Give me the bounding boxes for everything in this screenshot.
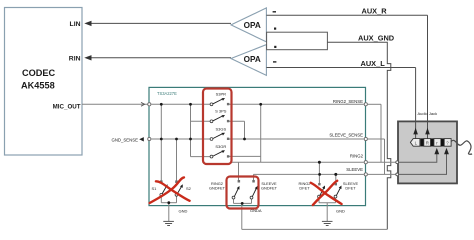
svg-text:RIN: RIN <box>69 55 81 62</box>
svg-text:R: R <box>426 140 429 145</box>
svg-text:AUX_GND: AUX_GND <box>358 33 395 42</box>
svg-text:S3PR: S3PR <box>216 92 227 97</box>
svg-text:Audio Jack: Audio Jack <box>418 111 438 116</box>
svg-text:GND: GND <box>336 208 345 213</box>
svg-text:DFET: DFET <box>299 186 310 191</box>
svg-text:AUX_L: AUX_L <box>361 59 386 68</box>
svg-text:GND: GND <box>179 209 188 214</box>
svg-text:TS3A227E: TS3A227E <box>157 91 177 96</box>
svg-text:GNDFET: GNDFET <box>209 186 226 191</box>
svg-text:OPA: OPA <box>244 55 261 64</box>
svg-text:SLEEVE: SLEEVE <box>346 167 363 172</box>
svg-text:GND_SENSE: GND_SENSE <box>111 137 138 142</box>
svg-text:OPA: OPA <box>244 21 261 30</box>
svg-text:SLEEVE_SENSE: SLEEVE_SENSE <box>329 132 363 137</box>
svg-text:S3GS: S3GS <box>215 126 226 131</box>
svg-text:S2: S2 <box>186 186 192 191</box>
svg-text:S 3PS: S 3PS <box>215 109 227 114</box>
svg-text:MIC_OUT: MIC_OUT <box>53 104 81 111</box>
svg-text:CODEC: CODEC <box>22 68 56 78</box>
svg-text:AUX_R: AUX_R <box>362 7 388 16</box>
svg-text:S3GR: S3GR <box>215 144 226 149</box>
svg-text:S1: S1 <box>152 186 158 191</box>
svg-text:RING2_SENSE: RING2_SENSE <box>333 99 363 104</box>
svg-text:AK4558: AK4558 <box>21 81 55 91</box>
svg-text:GNDA: GNDA <box>250 208 262 213</box>
svg-text:DFET: DFET <box>345 186 356 191</box>
svg-text:RING2: RING2 <box>350 154 364 159</box>
svg-text:GNDFET: GNDFET <box>261 186 278 191</box>
svg-text:LIN: LIN <box>70 21 81 28</box>
